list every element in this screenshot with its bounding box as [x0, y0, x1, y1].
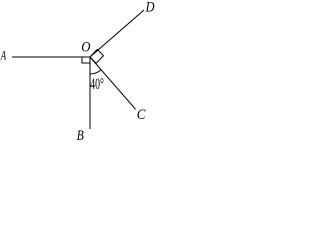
svg-text:C: C [137, 107, 146, 123]
svg-text:40°: 40° [90, 76, 104, 93]
svg-text:A: A [0, 47, 6, 62]
svg-text:O: O [81, 39, 90, 55]
svg-text:B: B [77, 128, 84, 142]
svg-text:D: D [145, 0, 155, 15]
